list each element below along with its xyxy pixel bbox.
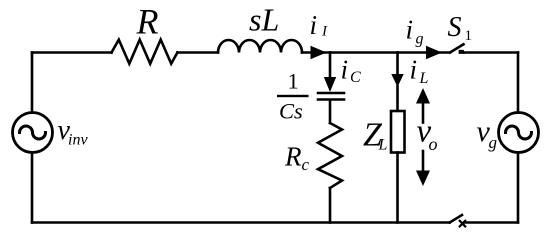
svg-text:R: R [284, 142, 302, 172]
arrow vo line upper [422, 101, 425, 123]
wire node A to node B [330, 51, 398, 54]
svg-text:g: g [489, 133, 498, 152]
svg-text:Cs: Cs [279, 99, 303, 124]
wire node B to switch [398, 51, 451, 54]
svg-text:inv: inv [68, 132, 88, 149]
wire capacitor to Rc [329, 100, 332, 123]
source vinv circle [13, 113, 53, 153]
switch S1 contact tick [459, 50, 465, 54]
wire left vertical lower [31, 153, 34, 223]
capacitor branch wire upper [329, 53, 332, 81]
capacitor C plate top [318, 92, 344, 95]
wire left vertical upper [31, 53, 34, 113]
inductor sL [218, 40, 302, 53]
svg-text:i: i [410, 55, 418, 85]
resistor Rc [318, 123, 342, 188]
svg-text:S: S [448, 12, 462, 43]
arrow vo line lower [422, 151, 425, 173]
resistor R [112, 40, 178, 64]
switch S2 contact cross stroke 1 [460, 221, 466, 227]
svg-text:sL: sL [249, 2, 279, 38]
wire ZL box to bottom [396, 153, 399, 223]
source vg circle [499, 113, 539, 153]
svg-text:1: 1 [288, 69, 299, 94]
arrow iC line and head [324, 77, 336, 92]
svg-text:g: g [416, 31, 424, 48]
wire switch to top-right corner [464, 51, 518, 54]
wire right vertical lower [517, 153, 520, 223]
svg-text:i: i [341, 55, 349, 85]
svg-text:o: o [429, 134, 438, 154]
svg-text:i: i [406, 15, 414, 45]
wire top-left horizontal (source to resistor) [32, 51, 112, 54]
svg-text:I: I [321, 24, 328, 40]
arrow vo head up [416, 88, 430, 104]
wire bottom horizontal left [32, 221, 450, 224]
wire Rc to bottom [329, 188, 332, 223]
svg-text:i: i [310, 10, 318, 40]
svg-text:1: 1 [465, 28, 473, 44]
arrow ig head [426, 46, 442, 60]
wire between R and inductor [177, 51, 218, 54]
wire right vertical upper [517, 53, 520, 113]
capacitor C plate bottom [318, 98, 344, 101]
switch S2 blade (bottom) [450, 215, 462, 223]
svg-text:C: C [350, 69, 361, 86]
arrow vo head down [416, 171, 430, 187]
svg-text:R: R [136, 2, 159, 42]
fraction bar [277, 95, 309, 97]
arrow iL head [391, 74, 403, 87]
wire bottom horizontal right [464, 221, 518, 224]
switch S1 blade [450, 44, 464, 52]
ZL branch wire upper [396, 53, 399, 79]
wire inductor to node A [302, 51, 330, 54]
svg-text:L: L [419, 70, 429, 87]
switch S2 contact cross stroke 2 [460, 221, 466, 227]
arrow i1 head [311, 46, 327, 60]
source vg sine [506, 126, 532, 139]
svg-text:L: L [378, 137, 388, 154]
source vinv sine [20, 126, 46, 139]
svg-text:c: c [302, 155, 310, 174]
wire arrow to ZL box [396, 86, 399, 111]
impedance ZL box [391, 111, 405, 153]
